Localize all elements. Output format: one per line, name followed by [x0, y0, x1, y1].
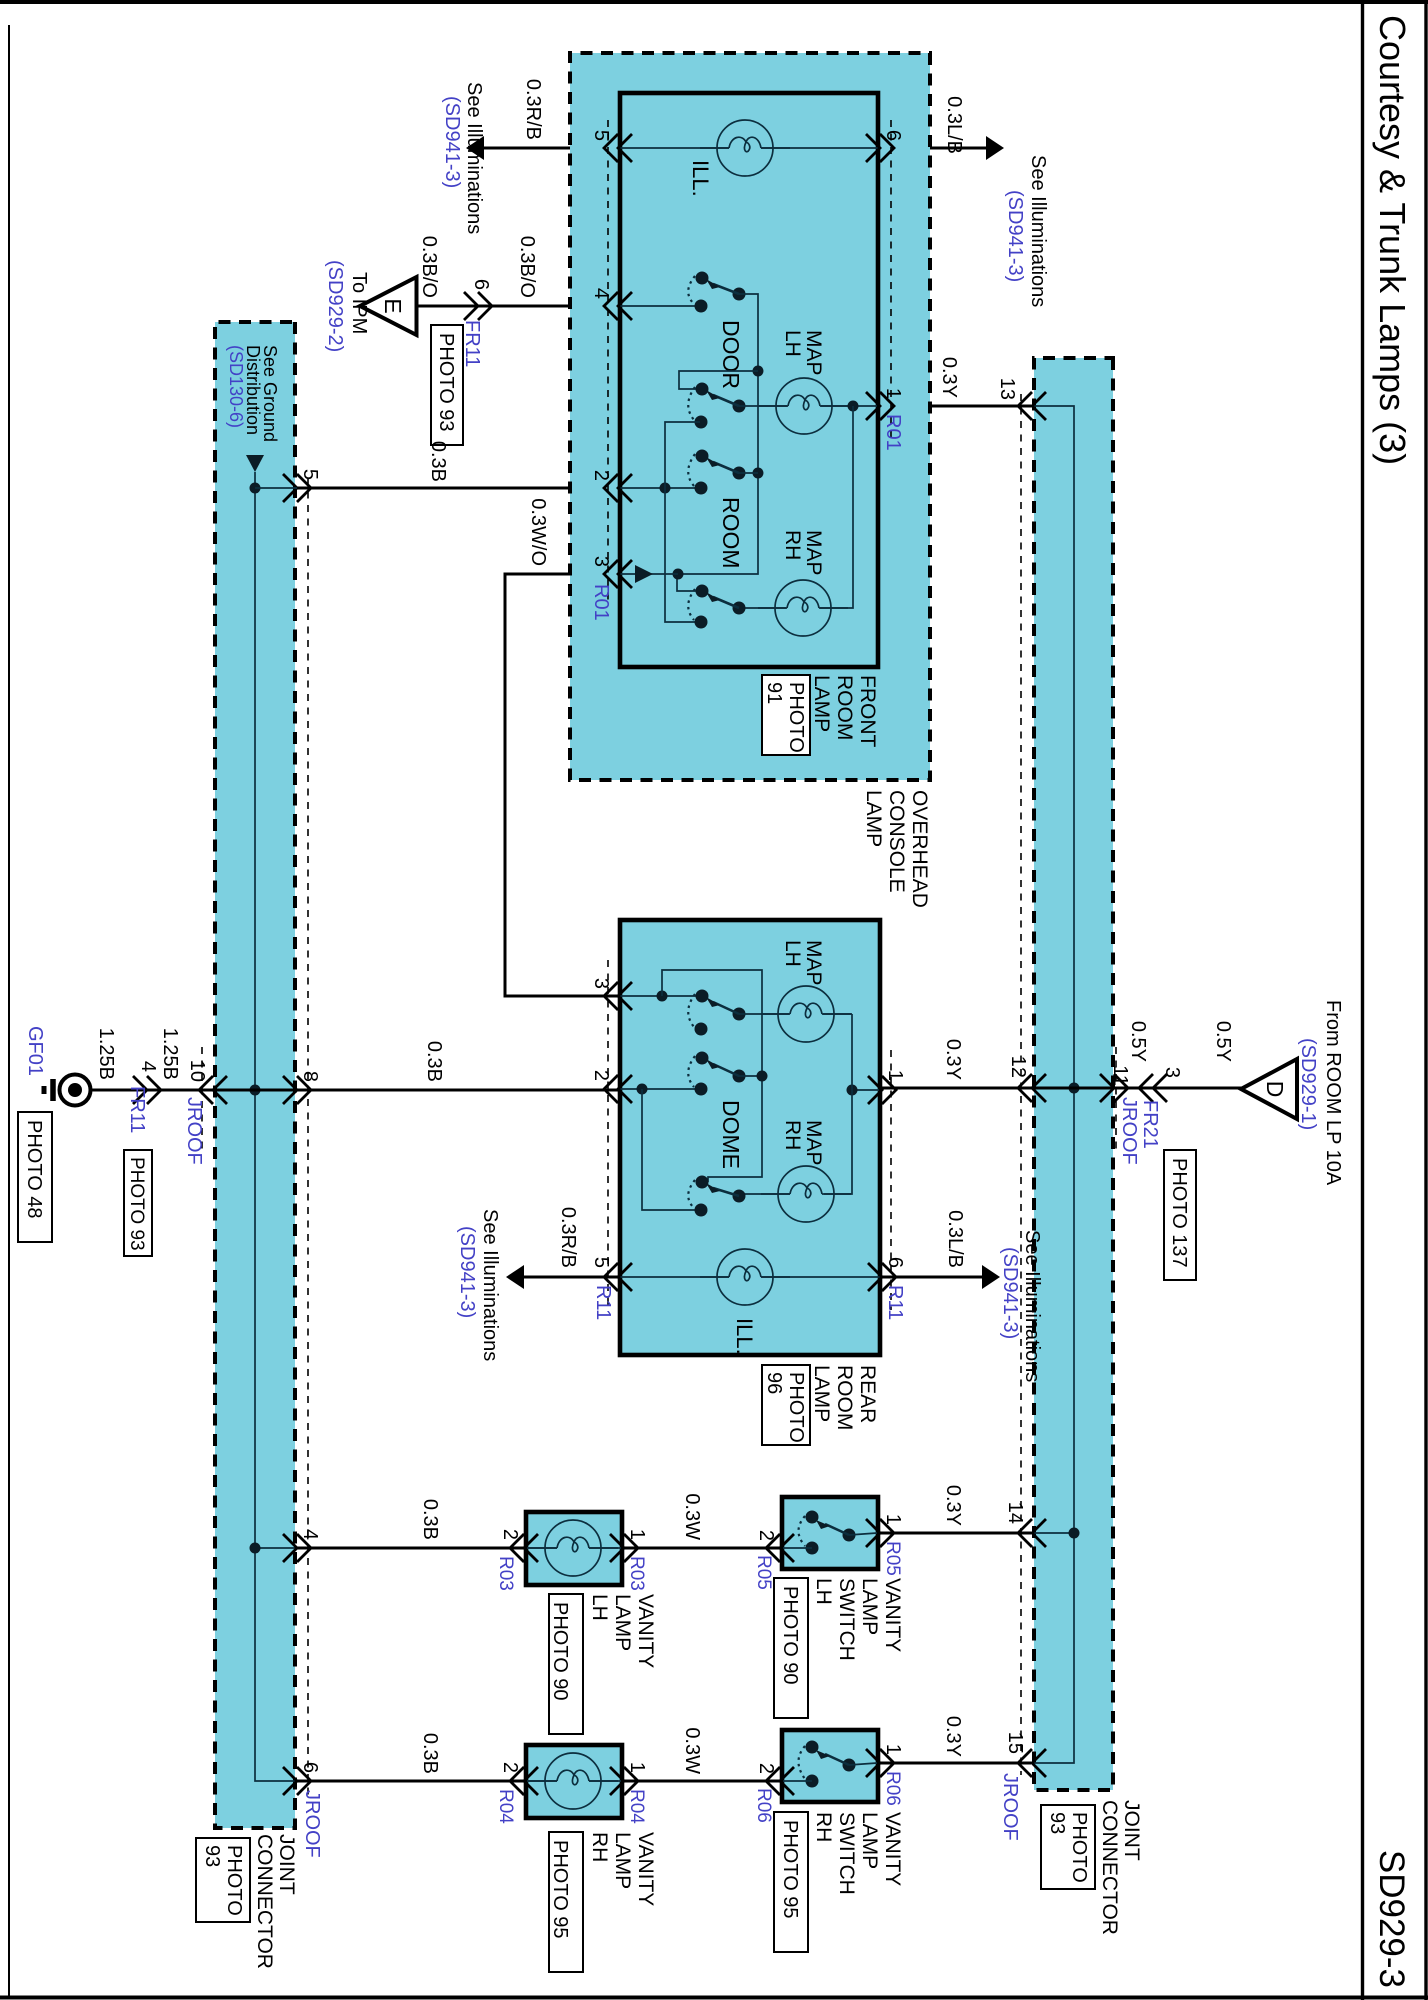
wire through bottom strip pin 5 — [255, 487, 297, 489]
pin 4 connector chevron (bottom strip) — [283, 1534, 311, 1562]
svg-text:LAMP: LAMP — [611, 1594, 634, 1651]
svg-text:11: 11 — [1109, 1065, 1131, 1086]
pin 2 chevron (vanity lamp RH) — [510, 1767, 538, 1795]
svg-text:0.3L/B: 0.3L/B — [944, 1210, 966, 1268]
svg-text:ILL.: ILL. — [688, 160, 713, 197]
wire through vanity lamp LH — [527, 1547, 621, 1549]
svg-text:LAMP: LAMP — [858, 1578, 881, 1635]
svg-text:ROOM: ROOM — [833, 675, 856, 740]
svg-text:ILL.: ILL. — [732, 1318, 757, 1355]
direction triangle on 0.3W/O wire — [635, 565, 653, 583]
svg-text:R04: R04 — [626, 1789, 647, 1824]
svg-text:PHOTO 93: PHOTO 93 — [126, 1157, 147, 1251]
photo box PHOTO 137 (FR21) — [1164, 1150, 1196, 1280]
pin 1 wire (rear) — [852, 1089, 879, 1091]
connector dashed line (top strip bottom pins) — [1020, 394, 1022, 1775]
svg-text:13: 13 — [996, 378, 1018, 400]
wire 0.3L/B rear pin 6 to illuminations arrow — [880, 1276, 984, 1279]
wire pin2 to ROOM switch fixed — [620, 487, 700, 489]
junction node bottom busbar pin 5 — [250, 483, 261, 494]
pin 6 connector chevron (bottom strip) — [283, 1767, 311, 1795]
junction node on top busbar at pin 12 — [1069, 1083, 1080, 1094]
connector chevron FR11 (IPM wire) — [464, 292, 492, 320]
wire 0.3B rear pin 2 to strip pin 8 — [297, 1089, 620, 1092]
wire 0.5Y from triangle D to pin 11 — [1113, 1087, 1242, 1090]
svg-text:(SD929-1): (SD929-1) — [1297, 1038, 1319, 1130]
label MAP RH (front) — [781, 530, 825, 576]
svg-text:6: 6 — [882, 130, 904, 141]
svg-text:R06: R06 — [753, 1788, 774, 1823]
svg-text:0.3Y: 0.3Y — [942, 1485, 964, 1526]
switch MAP RH (rear) — [688, 1176, 745, 1217]
connector dashed line (rear lamp bottom pins) — [607, 960, 609, 1310]
svg-text:Courtesy & Trunk Lamps (3): Courtesy & Trunk Lamps (3) — [1372, 15, 1413, 465]
svg-text:6: 6 — [299, 1762, 321, 1773]
VANITY LAMP LH box — [526, 1512, 622, 1585]
label MAP LH (rear) — [781, 940, 825, 986]
pin 14 connector chevron (JROOF) — [1018, 1519, 1046, 1547]
MAP LH moving contact feed hook — [679, 371, 758, 389]
DOOR switch pivot wire to bus — [677, 294, 758, 574]
svg-text:1: 1 — [626, 1762, 648, 1773]
svg-text:LAMP: LAMP — [862, 790, 885, 847]
pin 3 chevron (front lamp) — [604, 560, 632, 588]
svg-text:R05: R05 — [882, 1541, 903, 1576]
bulb MAP RH (front) — [758, 580, 848, 636]
svg-text:GF01: GF01 — [24, 1026, 46, 1076]
pin 15 connector chevron (JROOF) — [1018, 1749, 1046, 1777]
label MAP RH (rear) — [781, 1120, 825, 1166]
svg-text:2: 2 — [499, 1762, 521, 1773]
svg-text:2: 2 — [499, 1529, 521, 1540]
pin 2 chevron (front lamp) — [604, 474, 632, 502]
switch MAP LH (front) — [688, 383, 745, 429]
wire 0.3L/B front pin 6 to illuminations arrow — [878, 147, 988, 150]
svg-text:ROOM: ROOM — [718, 497, 744, 569]
bulb ILL (rear room lamp) — [700, 1249, 790, 1305]
label VANITY LAMP LH — [588, 1594, 657, 1668]
svg-text:4: 4 — [299, 1529, 321, 1540]
arrowhead to See Illuminations (front) — [466, 136, 484, 160]
svg-text:0.3Y: 0.3Y — [938, 357, 960, 398]
svg-text:6: 6 — [470, 279, 492, 290]
svg-text:FR21: FR21 — [1139, 1100, 1161, 1149]
junction node pin2 ground link (rear) — [637, 1084, 648, 1095]
svg-text:PHOTO 48: PHOTO 48 — [23, 1120, 45, 1219]
pin 6 chevron (front lamp) — [866, 134, 894, 162]
svg-text:DOME: DOME — [718, 1100, 744, 1169]
svg-text:JROOF: JROOF — [301, 1790, 323, 1858]
svg-text:MAP: MAP — [802, 530, 825, 576]
svg-text:Distribution: Distribution — [243, 345, 263, 435]
wire 0.3W vanity switch LH to vanity lamp LH — [621, 1547, 783, 1550]
svg-text:1.25B: 1.25B — [159, 1028, 181, 1080]
switch ROOM — [688, 450, 745, 569]
wire through bottom strip pins 8-10 — [213, 1089, 297, 1092]
svg-text:SD929-3: SD929-3 — [1372, 1850, 1411, 1988]
pin 5 chevron (rear lamp) — [604, 1263, 632, 1291]
pin 1 chevron (vanity switch LH) — [866, 1519, 894, 1547]
wire 0.3Y strip pin 15 to vanity switch RH — [877, 1762, 1031, 1765]
svg-text:MAP: MAP — [802, 940, 825, 986]
wire pin3 to MAP LH moving (rear) — [620, 995, 706, 997]
svg-text:CONSOLE: CONSOLE — [885, 790, 908, 893]
switch contacts (vanity LH) — [783, 1511, 877, 1555]
photo box PHOTO 95 (vanity lamp RH) — [549, 1832, 583, 1972]
pin 1 chevron (vanity lamp RH) — [610, 1767, 638, 1795]
svg-text:To IPM: To IPM — [348, 272, 370, 334]
svg-text:4: 4 — [137, 1061, 159, 1072]
svg-text:93: 93 — [1046, 1812, 1068, 1834]
junction node bus-ROOM pivot — [753, 468, 764, 479]
svg-text:R03: R03 — [495, 1556, 516, 1591]
photo box PHOTO 93 (bottom strip) — [196, 1838, 250, 1922]
svg-text:LAMP: LAMP — [810, 1365, 833, 1422]
svg-text:See Illuminations: See Illuminations — [1021, 1230, 1043, 1382]
OVERHEAD CONSOLE LAMP dashed block — [570, 53, 930, 780]
svg-text:JROOF: JROOF — [183, 1097, 205, 1165]
photo box PHOTO 48 (GF01) — [18, 1112, 52, 1242]
svg-text:R01: R01 — [590, 584, 612, 621]
svg-text:4: 4 — [590, 288, 612, 299]
branch wire between MAP bulbs (rear) — [738, 1014, 852, 1194]
svg-text:LAMP: LAMP — [858, 1812, 881, 1869]
wire pin3 junction up hook to MAP RH moving — [677, 574, 701, 591]
switch MAP LH (rear) — [688, 990, 745, 1036]
svg-text:1: 1 — [626, 1529, 648, 1540]
svg-text:15: 15 — [1004, 1732, 1026, 1754]
wire MAP LH pivot through bulb to pin 1 junction — [739, 405, 877, 407]
pin 3 interior wire (front) — [620, 573, 678, 575]
label OVERHEAD CONSOLE LAMP — [862, 790, 931, 908]
photo box PHOTO 91 — [762, 675, 810, 755]
svg-text:PHOTO 93: PHOTO 93 — [435, 333, 457, 432]
wire 0.3B/O front pin 4 to IPM triangle — [417, 305, 620, 308]
svg-text:0.5Y: 0.5Y — [1212, 1021, 1234, 1062]
arrowhead to See Illuminations (rear top) — [982, 1265, 1000, 1289]
svg-text:1: 1 — [884, 1070, 906, 1081]
svg-text:PHOTO 90: PHOTO 90 — [549, 1602, 571, 1701]
pin 5 chevron (front lamp) — [604, 134, 632, 162]
svg-text:PHOTO 90: PHOTO 90 — [779, 1586, 801, 1685]
wire through top strip pins 11-12 — [1031, 1087, 1113, 1090]
svg-text:R01: R01 — [882, 414, 904, 451]
connector dashed line (rear lamp top pins) — [890, 1050, 892, 1310]
svg-text:LAMP: LAMP — [611, 1832, 634, 1889]
svg-text:JOINT: JOINT — [1120, 1800, 1143, 1861]
bulb MAP RH (rear) — [761, 1166, 851, 1222]
wire 1.25B strip pin 10 to ground — [91, 1089, 213, 1092]
switch DOOR — [688, 272, 745, 390]
svg-text:LH: LH — [781, 330, 804, 357]
label VANITY LAMP SWITCH LH — [812, 1578, 904, 1661]
svg-text:JROOF: JROOF — [999, 1773, 1021, 1841]
ROOM pivot link to bus — [738, 472, 758, 474]
bulb (vanity lamp RH) — [528, 1753, 618, 1809]
svg-text:RH: RH — [588, 1832, 611, 1862]
svg-text:From ROOM LP 10A: From ROOM LP 10A — [1322, 1000, 1344, 1186]
label FRONT ROOM LAMP — [810, 675, 879, 747]
photo box PHOTO 95 (vanity switch RH) — [774, 1812, 808, 1952]
svg-text:(SD941-3): (SD941-3) — [441, 96, 463, 188]
junction node bus-MAP LH feed — [753, 366, 764, 377]
svg-text:LAMP: LAMP — [810, 675, 833, 732]
svg-text:5: 5 — [590, 1257, 612, 1268]
svg-text:ROOM: ROOM — [833, 1365, 856, 1430]
svg-text:D: D — [1262, 1081, 1288, 1098]
pin 1 chevron (vanity switch RH) — [866, 1749, 894, 1777]
wire pin6-pin5 with ILL bulb (rear) — [620, 1276, 880, 1278]
svg-text:0.3Y: 0.3Y — [942, 1039, 964, 1080]
svg-text:CONNECTOR: CONNECTOR — [1098, 1800, 1121, 1935]
svg-text:FR11: FR11 — [461, 320, 483, 367]
svg-text:1: 1 — [882, 388, 904, 399]
VANITY LAMP SWITCH RH box — [782, 1730, 878, 1802]
bulb (vanity lamp LH) — [528, 1520, 618, 1576]
svg-text:0.3B: 0.3B — [427, 441, 449, 482]
switch contacts (vanity RH) — [783, 1741, 877, 1788]
svg-text:0.3R/B: 0.3R/B — [557, 1207, 579, 1268]
svg-text:VANITY: VANITY — [634, 1594, 657, 1668]
label JOINT CONNECTOR (top strip) — [1098, 1800, 1143, 1935]
svg-text:3: 3 — [1161, 1067, 1183, 1078]
photo box PHOTO 93 (FR11 ground) — [124, 1150, 152, 1256]
svg-text:RH: RH — [812, 1812, 835, 1842]
VANITY LAMP RH box — [526, 1745, 622, 1818]
photo box PHOTO 96 — [762, 1365, 810, 1445]
DOME pivot link to bus — [738, 1075, 762, 1077]
svg-text:(SD929-2): (SD929-2) — [324, 260, 346, 352]
svg-text:PHOTO: PHOTO — [785, 682, 807, 753]
label REAR ROOM LAMP — [810, 1365, 879, 1430]
switch MAP RH (front) — [688, 585, 745, 629]
junction node pin3 (rear) — [657, 991, 668, 1002]
svg-text:3: 3 — [590, 978, 612, 989]
wire MAP LH pivot through bulb to pin1 branch (rear) — [739, 1013, 852, 1015]
svg-text:VANITY: VANITY — [881, 1578, 904, 1652]
junction node pin1 branch (rear) — [847, 1085, 858, 1096]
svg-text:OVERHEAD: OVERHEAD — [908, 790, 931, 908]
connector dashed line (bottom strip pin 10) — [201, 1047, 203, 1153]
bulb MAP LH (front) — [759, 378, 849, 434]
svg-text:6: 6 — [884, 1257, 906, 1268]
svg-text:VANITY: VANITY — [634, 1832, 657, 1906]
svg-text:R11: R11 — [592, 1285, 614, 1320]
svg-text:FRONT: FRONT — [856, 675, 879, 747]
FRONT ROOM LAMP box — [620, 93, 878, 667]
ground link wire to MAP switch fixed contacts — [665, 422, 700, 622]
svg-text:5: 5 — [299, 469, 321, 480]
svg-text:LH: LH — [588, 1594, 611, 1621]
connector dashed line (front lamp top pins) — [890, 120, 892, 440]
pin 1 chevron (vanity lamp LH) — [610, 1534, 638, 1562]
junction node on top busbar at pin 14 — [1069, 1528, 1080, 1539]
svg-text:MAP: MAP — [802, 330, 825, 376]
svg-text:2: 2 — [755, 1763, 777, 1774]
svg-text:See Ground: See Ground — [260, 345, 280, 442]
pin 4 chevron (front lamp) — [604, 292, 632, 320]
svg-text:10: 10 — [186, 1060, 208, 1082]
svg-text:R05: R05 — [753, 1555, 774, 1590]
svg-text:SWITCH: SWITCH — [835, 1578, 858, 1661]
svg-text:0.3W/O: 0.3W/O — [527, 498, 549, 566]
branch to MAP RH bulb (front) — [738, 406, 853, 608]
pin 2 chevron (rear lamp) — [604, 1075, 632, 1103]
svg-text:(SD941-3): (SD941-3) — [1004, 190, 1026, 282]
svg-text:1: 1 — [882, 1514, 904, 1525]
wire pin5-pin6 with ILL bulb (front) — [620, 147, 878, 149]
pin 2 chevron (vanity switch LH) — [766, 1534, 794, 1562]
pin 12 connector chevron (JROOF) — [1018, 1074, 1046, 1102]
wire 0.3B vanity lamp LH to strip pin 4 — [297, 1547, 526, 1550]
svg-text:12: 12 — [1007, 1056, 1029, 1078]
bulb MAP LH (rear) — [761, 986, 851, 1042]
triangle E To IPM — [360, 277, 417, 335]
ground link to MAP RH fixed (rear) — [642, 1089, 700, 1210]
wire pin2 to DOME fixed (rear) — [620, 1088, 706, 1090]
label MAP LH (front) — [781, 330, 825, 376]
bulb ILL (front room lamp) — [700, 120, 790, 176]
svg-text:REAR: REAR — [856, 1365, 879, 1423]
label VANITY LAMP RH — [588, 1832, 657, 1906]
svg-text:RH: RH — [781, 1120, 804, 1150]
svg-text:91: 91 — [763, 682, 785, 704]
pin 6 chevron (rear lamp) — [868, 1263, 896, 1291]
ground distribution triangle marker — [246, 455, 264, 472]
pin3 branch to bus (rear) — [662, 970, 762, 1182]
svg-text:R04: R04 — [495, 1789, 516, 1824]
wire 0.3W vanity switch RH to vanity lamp RH — [621, 1780, 783, 1783]
pin 2 chevron (vanity lamp LH) — [510, 1534, 538, 1562]
pin 1 chevron (rear lamp) — [868, 1076, 896, 1104]
wire 0.3B vanity lamp RH to strip pin 6 — [297, 1780, 526, 1783]
svg-text:1.25B: 1.25B — [95, 1028, 117, 1080]
connector dashed line (bottom strip top pins) — [307, 478, 309, 1795]
svg-text:PHOTO: PHOTO — [1068, 1812, 1090, 1883]
svg-text:PHOTO 137: PHOTO 137 — [1168, 1158, 1190, 1268]
photo box PHOTO 93 (top strip) — [1041, 1805, 1095, 1889]
svg-text:93: 93 — [201, 1845, 223, 1867]
svg-text:R11: R11 — [884, 1285, 906, 1320]
arrowhead to See Illuminations (front top) — [986, 136, 1004, 160]
svg-text:See Illuminations: See Illuminations — [463, 82, 485, 234]
arrowhead to See Illuminations (rear bottom) — [506, 1265, 524, 1289]
connector dashed line (top strip pin 11) — [1115, 1047, 1117, 1153]
VANITY LAMP SWITCH LH box — [782, 1497, 878, 1569]
label VANITY LAMP SWITCH RH — [812, 1812, 904, 1895]
pin 11 connector chevron (JROOF) — [1100, 1074, 1128, 1102]
svg-text:2: 2 — [590, 470, 612, 481]
pin 3 chevron (rear lamp) — [604, 982, 632, 1010]
svg-text:See Illuminations: See Illuminations — [1027, 155, 1049, 307]
photo box PHOTO 90 (vanity switch LH) — [774, 1578, 808, 1718]
svg-text:0.3R/B: 0.3R/B — [522, 79, 544, 140]
svg-text:PHOTO: PHOTO — [785, 1372, 807, 1443]
connector chevron FR21 — [1139, 1074, 1167, 1102]
junction node pin2 ground link — [660, 483, 671, 494]
svg-text:96: 96 — [763, 1372, 785, 1394]
svg-text:MAP: MAP — [802, 1120, 825, 1166]
svg-text:LH: LH — [781, 940, 804, 967]
ground symbol GF01 — [44, 1075, 91, 1106]
pin 13 connector chevron (JROOF) — [1018, 392, 1046, 420]
wire 0.3Y strip pin 14 to vanity switch LH — [877, 1532, 1031, 1535]
svg-text:0.3B: 0.3B — [419, 1733, 441, 1774]
svg-text:0.3W: 0.3W — [681, 1493, 703, 1540]
svg-text:5: 5 — [590, 130, 612, 141]
svg-text:0.3B: 0.3B — [419, 1499, 441, 1540]
svg-text:CONNECTOR: CONNECTOR — [253, 1834, 276, 1969]
svg-text:1: 1 — [882, 1744, 904, 1755]
pin 5 connector chevron (bottom strip) — [283, 474, 311, 502]
pin 2 chevron (vanity switch RH) — [766, 1767, 794, 1795]
busbar (bottom strip) — [255, 472, 295, 1781]
svg-text:PHOTO 95: PHOTO 95 — [779, 1820, 801, 1919]
pin 10 connector chevron (bottom strip) — [199, 1076, 227, 1104]
REAR ROOM LAMP box — [620, 920, 880, 1355]
junction node DOME pivot on bus — [757, 1071, 768, 1082]
joint connector JROOF (bottom strip) block — [215, 322, 295, 1828]
pin 8 connector chevron (bottom strip) — [283, 1076, 311, 1104]
svg-text:0.3B/O: 0.3B/O — [418, 236, 440, 298]
svg-text:2: 2 — [590, 1070, 612, 1081]
wire 0.3R/B front pin 5 to illuminations arrow — [480, 147, 620, 150]
svg-text:FR11: FR11 — [126, 1086, 148, 1133]
svg-text:0.5Y: 0.5Y — [1127, 1021, 1149, 1062]
junction node bottom busbar pin 4 — [250, 1543, 261, 1554]
svg-text:2: 2 — [755, 1530, 777, 1541]
busbar (top strip) — [1030, 406, 1074, 1763]
joint connector JROOF (top strip) block — [1034, 358, 1113, 1790]
svg-text:0.3Y: 0.3Y — [942, 1716, 964, 1757]
svg-text:DOOR: DOOR — [718, 320, 744, 389]
svg-text:0.3B: 0.3B — [423, 1041, 445, 1082]
svg-text:0.3B/O: 0.3B/O — [516, 236, 538, 298]
junction node bottom busbar pin 8/10 — [250, 1085, 261, 1096]
svg-text:LH: LH — [812, 1578, 835, 1605]
svg-text:RH: RH — [781, 530, 804, 560]
connector dashed line (front lamp bottom pins) — [607, 120, 609, 600]
wire 0.3W/O front pin 3 to rear pin 3 — [505, 574, 620, 996]
svg-text:(SD130-6): (SD130-6) — [226, 345, 246, 428]
switch DOME — [688, 1052, 745, 1170]
svg-text:(SD941-3): (SD941-3) — [456, 1226, 478, 1318]
svg-text:E: E — [380, 298, 406, 313]
svg-text:R03: R03 — [626, 1556, 647, 1591]
svg-text:(SD941-3): (SD941-3) — [999, 1247, 1021, 1339]
wire 0.3Y strip pin 12 to rear lamp pin 1 — [879, 1087, 1031, 1090]
svg-text:0.3W: 0.3W — [681, 1727, 703, 1774]
photo box PHOTO 90 (vanity lamp LH) — [549, 1594, 583, 1734]
junction node pin3 (front) — [673, 569, 684, 580]
label JOINT CONNECTOR (bottom strip) — [253, 1834, 298, 1969]
title divider line — [1361, 0, 1364, 2000]
svg-text:VANITY: VANITY — [881, 1812, 904, 1886]
pin 1 chevron (front lamp) — [866, 392, 894, 420]
label See Ground Distribution — [226, 345, 280, 442]
wire pin4 to DOOR switch — [620, 305, 700, 307]
wire through vanity lamp RH — [527, 1780, 621, 1782]
junction node pin1 branch (front) — [848, 401, 859, 412]
svg-text:SWITCH: SWITCH — [835, 1812, 858, 1895]
svg-text:JOINT: JOINT — [275, 1834, 298, 1895]
svg-text:R06: R06 — [882, 1771, 903, 1806]
svg-text:3: 3 — [590, 556, 612, 567]
svg-text:See Illuminations: See Illuminations — [479, 1209, 501, 1361]
svg-text:14: 14 — [1004, 1502, 1026, 1524]
photo box PHOTO 93 (FR11 IPM) — [431, 325, 463, 445]
wire 0.3B front lamp pin 2 to strip pin 5 — [297, 487, 620, 490]
